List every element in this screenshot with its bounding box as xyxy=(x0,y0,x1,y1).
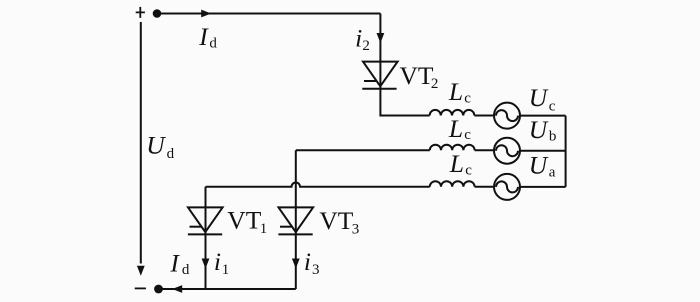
arrow Id top (current direction) xyxy=(201,10,211,18)
label i3 xyxy=(304,247,320,278)
label Ua xyxy=(529,151,556,181)
svg-text:c: c xyxy=(549,99,556,115)
label Id top xyxy=(198,22,217,51)
wire source Uc to right bus xyxy=(520,115,566,117)
svg-text:c: c xyxy=(465,163,472,179)
svg-text:c: c xyxy=(464,127,471,143)
svg-text:i: i xyxy=(304,247,311,276)
wire top horizontal (+ rail) xyxy=(157,13,380,15)
arrow down on left rail xyxy=(137,266,145,276)
svg-text:I: I xyxy=(169,249,180,278)
thyristor VT2 xyxy=(362,62,397,89)
wire source Ua to right bus xyxy=(520,186,566,188)
thyristor VT3 xyxy=(278,207,313,234)
svg-text:U: U xyxy=(146,131,166,160)
AC source Uc xyxy=(494,103,520,129)
svg-text:a: a xyxy=(549,165,556,181)
svg-text:b: b xyxy=(549,129,557,145)
arrow i2 xyxy=(377,33,385,43)
label Uc xyxy=(529,83,556,115)
svg-text:I: I xyxy=(198,22,209,51)
arrow i1 xyxy=(202,259,210,269)
arrow Id bottom (pointing left) xyxy=(172,285,182,293)
minus terminal xyxy=(135,287,146,289)
wire phase-a branch with hop over VT3 drop xyxy=(206,183,430,187)
svg-text:VT: VT xyxy=(400,61,434,90)
svg-text:i: i xyxy=(355,23,362,52)
svg-text:d: d xyxy=(182,262,190,278)
AC source Ub xyxy=(494,138,520,164)
svg-text:L: L xyxy=(449,149,464,178)
label i2 xyxy=(355,23,370,54)
inductor Lc (phase b) xyxy=(430,145,475,151)
svg-text:3: 3 xyxy=(312,262,320,278)
arrow i3 xyxy=(292,259,300,269)
svg-text:U: U xyxy=(529,115,549,144)
wire phase-b drop through hop down to VT3 and bottom rail xyxy=(295,150,297,289)
label Ub xyxy=(529,115,557,145)
wire phase-b branch left xyxy=(296,149,430,151)
wire phase-a down through VT1 to bottom rail xyxy=(205,187,207,289)
inductor Lc (phase c) xyxy=(430,110,475,116)
label VT1 xyxy=(227,206,267,238)
svg-text:U: U xyxy=(529,151,549,180)
wire inductor to source Ub xyxy=(475,149,494,151)
wire inductor to source Ua xyxy=(475,186,494,188)
wire left vertical (Ud rail) xyxy=(140,22,142,264)
wire bottom rail xyxy=(159,288,296,290)
svg-text:1: 1 xyxy=(222,262,230,278)
wire vertical through VT2 xyxy=(380,14,429,116)
label Id bottom xyxy=(169,249,190,279)
svg-text:U: U xyxy=(529,83,549,112)
svg-text:i: i xyxy=(214,247,221,276)
plus terminal xyxy=(136,7,145,18)
label VT3 xyxy=(319,206,359,238)
svg-text:L: L xyxy=(448,77,463,106)
label Lc (phase b) xyxy=(448,114,471,143)
svg-text:VT: VT xyxy=(227,206,261,235)
svg-text:VT: VT xyxy=(319,206,353,235)
svg-text:2: 2 xyxy=(362,38,370,54)
AC source Ua xyxy=(494,174,520,200)
label Lc (phase c) xyxy=(448,77,471,107)
label Ud xyxy=(146,131,174,162)
label VT2 xyxy=(400,61,439,92)
thyristor VT1 xyxy=(188,207,223,234)
svg-text:3: 3 xyxy=(352,221,360,237)
label Lc (phase a) xyxy=(449,149,472,179)
svg-text:1: 1 xyxy=(260,221,268,237)
svg-text:c: c xyxy=(464,90,471,106)
svg-text:2: 2 xyxy=(431,76,439,92)
label i1 xyxy=(214,247,229,278)
inductor Lc (phase a) xyxy=(430,181,475,187)
svg-text:L: L xyxy=(448,114,463,143)
node bottom (negative terminal dot) xyxy=(154,285,163,294)
svg-text:d: d xyxy=(209,35,217,51)
svg-text:d: d xyxy=(167,146,175,162)
wire right bus (neutral) xyxy=(565,116,567,187)
node top (positive terminal dot) xyxy=(153,9,162,18)
wire source Ub to right bus xyxy=(520,150,566,152)
wire inductor to source Uc xyxy=(474,115,494,117)
